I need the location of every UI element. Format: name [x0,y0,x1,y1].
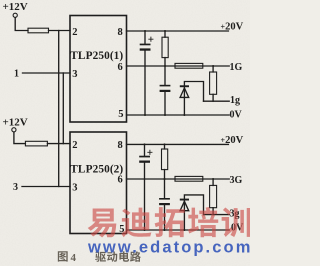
caption char 动 [107,252,117,262]
resistor R5 [25,141,47,146]
capacitor C3 plus sign [148,150,152,154]
terminal +12V (lower) [12,128,16,132]
capacitor C2 plates [160,85,171,87]
caption char 电 [119,251,129,261]
wire +20V rail (upper) [127,30,229,32]
junction dots [144,30,146,32]
resistor R7 [175,176,203,181]
caption char 路 [130,251,141,261]
wire vertical interconnect B [62,73,64,144]
wire 1g stub [204,100,230,102]
capacitor C3 leads [144,144,146,230]
resistor R6 leads [164,144,166,179]
paper noise overlay [0,0,1,1]
terminal +12V (top) [13,13,17,17]
wire 0V line (upper) [127,114,230,116]
resistor R1 [28,28,49,33]
zener D2 triangle [180,201,189,210]
zener D1 triangle [180,88,189,97]
capacitor C4 leads [164,179,166,230]
wire from +12V terminal to resistor R1 [15,18,28,31]
wire zener D1 top link [184,82,203,102]
zener D1 cathode bar [180,85,189,87]
resistor R4 [210,72,217,94]
capacitor C3 plates [139,156,150,158]
resistor R2 [162,37,168,57]
wire 3g stub [204,214,230,216]
resistor R4 leads [212,66,214,101]
op-coupler U2 TLP250(2) box [70,132,127,234]
wire input 1 to pin 3 [23,72,71,74]
resistor R8 leads [212,179,214,215]
resistor R3 [175,63,203,68]
wire R5 to pin 2 of U2 [47,143,70,145]
wire vertical interconnect A [58,31,60,187]
wire pin 6 output line (upper) [127,65,230,67]
caption char 驱 [95,252,106,262]
resistor R2 leads [164,31,166,66]
wire zener D2 top link [184,195,203,215]
capacitor C2 leads [164,66,166,115]
zener D2 cathode bar [180,199,189,201]
capacitor C4 plates [159,198,170,200]
capacitor C1 leads [144,31,146,115]
capacitor C1 plates [140,44,151,46]
watermark char 训 [222,207,251,237]
watermark char 易 [88,209,117,238]
wire 0V line (lower) [127,229,230,231]
watermark char 培 [188,207,218,237]
wire +20V rail (lower) [127,143,229,145]
zener D1 anode lead [183,87,185,115]
wire from lower +12V terminal to resistor R5 [14,132,26,144]
op-coupler U1 TLP250(1) box [70,16,127,123]
resistor R6 [162,149,168,170]
watermark char 拓 [155,207,185,237]
capacitor C1 plus sign [149,37,153,41]
zener D2 anode lead [183,201,185,231]
caption char 图 [58,251,68,261]
resistor R8 [210,185,217,207]
wire input 3 to pin 3 of U2 [22,186,70,188]
wire R1 to pin 2 [49,30,71,32]
watermark char 迪 [121,208,151,238]
wire pin 6 output line (lower) [127,178,230,180]
